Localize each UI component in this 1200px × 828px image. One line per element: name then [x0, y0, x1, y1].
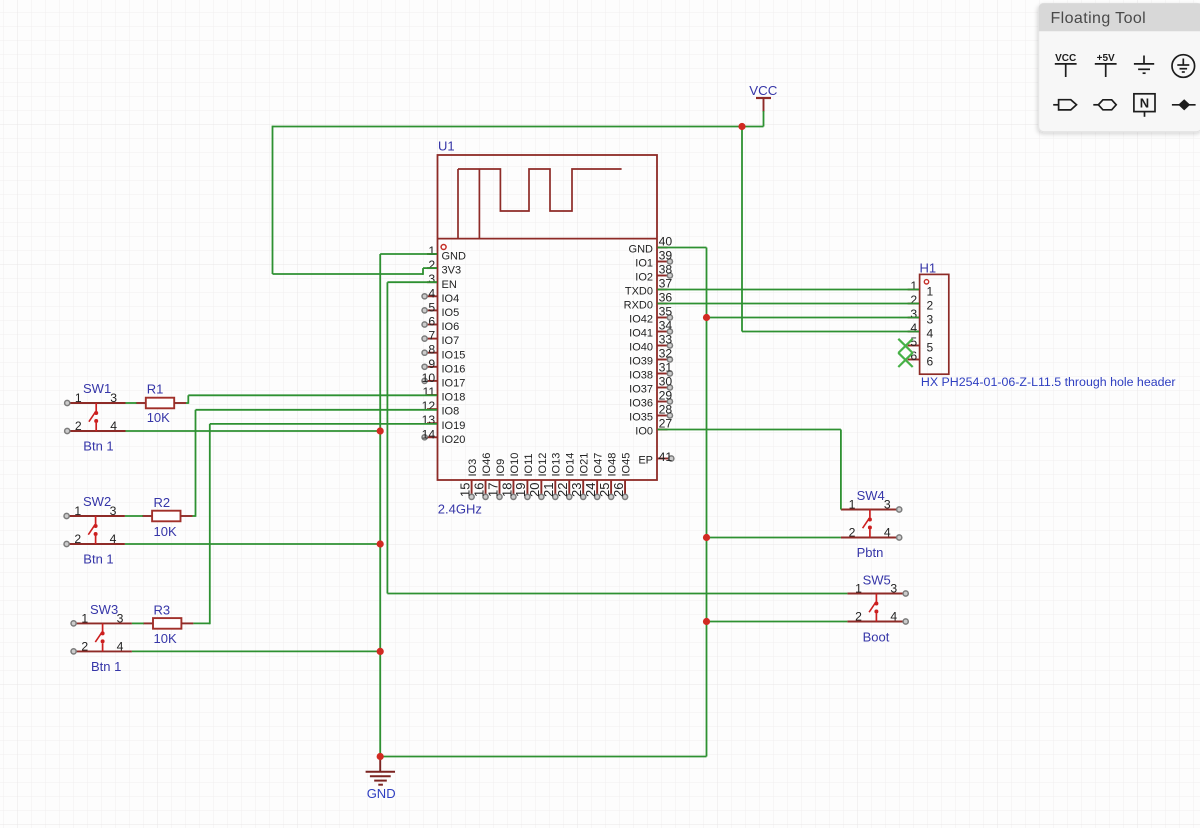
U1 pin 24 (IO47) — [583, 453, 605, 500]
U1 pin 28 (IO35) — [629, 403, 672, 424]
panel icon voltage probe — [1172, 100, 1196, 109]
svg-text:IO18: IO18 — [442, 392, 466, 404]
svg-text:IO42: IO42 — [629, 314, 653, 326]
svg-text:IO14: IO14 — [565, 453, 577, 477]
svg-text:Pbtn: Pbtn — [857, 545, 884, 560]
svg-text:30: 30 — [659, 375, 673, 389]
pushbutton SW5 — [847, 582, 908, 625]
svg-text:23: 23 — [569, 483, 584, 497]
svg-text:13: 13 — [422, 413, 436, 427]
svg-text:IO13: IO13 — [551, 453, 563, 477]
wire EN U1 pin 3 horizontal — [387, 281, 437, 283]
resistor R1 — [136, 398, 186, 409]
svg-text:Boot: Boot — [863, 630, 890, 645]
svg-text:1: 1 — [910, 279, 917, 293]
svg-text:2: 2 — [910, 293, 917, 307]
svg-text:N: N — [1140, 96, 1149, 111]
svg-text:1: 1 — [428, 244, 435, 258]
U1 antenna area divider line — [438, 238, 658, 240]
wire GND U1 pin 40 stub horizontal — [658, 247, 707, 249]
wire VCC into U1 pin 2 — [423, 267, 437, 269]
wire EN vertical drop — [386, 282, 388, 593]
wire R3 riser vertical — [209, 424, 211, 624]
svg-text:Btn 1: Btn 1 — [83, 438, 113, 453]
wire GND to H1 pin 3 — [707, 317, 920, 319]
svg-text:20: 20 — [527, 483, 542, 497]
panel icon VCC power flag — [1055, 64, 1077, 77]
svg-text:U1: U1 — [438, 139, 455, 154]
U1 pin 20 (IO12) — [527, 453, 549, 500]
svg-text:IO5: IO5 — [442, 307, 460, 319]
svg-text:IO2: IO2 — [635, 272, 653, 284]
pushbutton SW3 — [71, 611, 132, 654]
wire SW3 pin 3 to R3 — [132, 622, 144, 624]
panel icon netlabel N — [1134, 94, 1155, 117]
svg-text:10: 10 — [422, 371, 436, 385]
svg-text:IO9: IO9 — [495, 459, 507, 477]
U1 pin 11 (IO18) — [423, 385, 466, 404]
pushbutton SW2 — [64, 504, 125, 547]
junction dot GND at SW3 row — [377, 648, 384, 655]
wire R1 to vertical riser — [186, 402, 188, 404]
VCC power symbol — [756, 98, 771, 112]
svg-text:10K: 10K — [154, 524, 177, 539]
U1 pin 7 (IO7) — [422, 329, 459, 348]
U1 pin 4 (IO4) — [422, 286, 459, 305]
svg-text:5: 5 — [428, 300, 435, 314]
wire GND main left vertical — [379, 254, 381, 757]
U1 pin 1 indicator dot — [441, 245, 446, 250]
svg-text:5: 5 — [927, 341, 934, 355]
ground symbol GND — [366, 757, 395, 785]
svg-text:4: 4 — [428, 286, 435, 300]
wire R3 to U1 pin 13 — [210, 423, 437, 425]
panel icon earth ground — [1172, 55, 1195, 78]
wire VCC top horizontal rail — [273, 126, 764, 128]
svg-text:IO37: IO37 — [629, 384, 653, 396]
svg-text:2: 2 — [74, 532, 81, 546]
H1 pin 6 — [908, 349, 934, 369]
svg-text:IO1: IO1 — [635, 258, 653, 270]
U1 pin 37 (TXD0) — [625, 277, 673, 298]
svg-text:3: 3 — [910, 307, 917, 321]
svg-text:25: 25 — [597, 483, 612, 497]
svg-text:6: 6 — [428, 315, 435, 329]
svg-text:IO11: IO11 — [523, 453, 535, 476]
svg-text:IO6: IO6 — [442, 321, 460, 333]
svg-text:1: 1 — [849, 498, 856, 512]
H1 pin 5 — [908, 335, 934, 355]
svg-text:VCC: VCC — [1055, 53, 1076, 64]
H1 pin 5 no-connect X — [898, 339, 912, 353]
svg-text:1: 1 — [927, 285, 934, 299]
svg-text:4: 4 — [910, 321, 917, 335]
svg-text:+5V: +5V — [1097, 53, 1115, 64]
svg-text:3V3: 3V3 — [442, 265, 462, 277]
svg-text:EP: EP — [638, 455, 653, 467]
wire GND from SW1 pin 4 — [126, 430, 381, 432]
svg-text:3: 3 — [890, 582, 897, 596]
svg-text:1: 1 — [855, 582, 862, 596]
svg-text:SW1: SW1 — [83, 381, 111, 396]
svg-text:RXD0: RXD0 — [624, 300, 653, 312]
U1 pin 8 (IO15) — [422, 343, 465, 362]
svg-text:8: 8 — [428, 343, 435, 357]
U1 pin 31 (IO38) — [629, 361, 672, 382]
svg-text:10K: 10K — [154, 631, 177, 646]
svg-text:IO41: IO41 — [629, 328, 653, 340]
panel icon ground — [1134, 56, 1154, 74]
U1 pin 35 (IO42) — [629, 305, 672, 326]
junction dot GND at SW5 row — [703, 618, 710, 625]
svg-text:TXD0: TXD0 — [625, 286, 653, 298]
svg-text:R1: R1 — [147, 382, 164, 397]
connector H1 body — [920, 274, 949, 374]
wire R2 to vertical riser — [193, 515, 196, 517]
svg-text:SW4: SW4 — [857, 488, 885, 503]
svg-text:10K: 10K — [147, 410, 170, 425]
svg-text:IO10: IO10 — [509, 453, 521, 477]
U1 pin 1 (GND) — [427, 244, 466, 263]
svg-text:IO20: IO20 — [442, 434, 466, 446]
wire R2 to U1 pin 12 — [196, 409, 438, 411]
svg-text:34: 34 — [659, 319, 673, 333]
svg-text:9: 9 — [428, 357, 435, 371]
U1 pin 3 (EN) — [427, 272, 457, 291]
U1 pin 30 (IO37) — [629, 375, 672, 396]
svg-text:VCC: VCC — [749, 83, 777, 98]
svg-text:35: 35 — [659, 305, 673, 319]
U1 pin 40 (GND) — [629, 235, 673, 256]
svg-text:3: 3 — [428, 272, 435, 286]
U1 pin 9 (IO16) — [422, 357, 465, 376]
svg-text:4: 4 — [884, 526, 891, 540]
svg-text:19: 19 — [513, 483, 528, 497]
U1 PCB antenna meander — [458, 169, 622, 239]
svg-text:IO36: IO36 — [629, 398, 653, 410]
wire R3 to vertical riser — [193, 622, 209, 624]
U1 pin 23 (IO21) — [569, 453, 591, 500]
svg-text:IO46: IO46 — [481, 453, 493, 477]
resistor R2 — [142, 511, 192, 522]
svg-text:33: 33 — [659, 333, 673, 347]
svg-text:39: 39 — [659, 249, 673, 263]
svg-text:1: 1 — [81, 611, 88, 625]
U1 pin 2 (3V3) — [427, 258, 461, 277]
svg-text:1: 1 — [75, 391, 82, 405]
svg-text:22: 22 — [555, 483, 570, 497]
wire R1 to U1 pin 11 — [188, 394, 437, 396]
wire GND from SW3 pin 4 — [132, 650, 380, 652]
wire R1 riser vertical — [187, 395, 189, 404]
pushbutton SW1 — [65, 391, 126, 434]
svg-text:IO16: IO16 — [442, 363, 466, 375]
svg-text:GND: GND — [442, 251, 467, 263]
wire GND from SW2 pin 4 — [125, 543, 380, 545]
panel icon +5V power flag — [1095, 64, 1117, 77]
svg-text:IO35: IO35 — [629, 412, 653, 424]
svg-text:18: 18 — [499, 483, 514, 497]
svg-text:1: 1 — [74, 504, 81, 518]
svg-text:28: 28 — [659, 403, 673, 417]
junction dot GND at SW1 row — [377, 427, 384, 434]
svg-text:29: 29 — [659, 389, 673, 403]
wire EN horizontal to SW5 pin 1 — [387, 593, 847, 595]
svg-text:17: 17 — [485, 483, 500, 497]
wire R2 riser vertical — [195, 410, 197, 517]
svg-text:IO7: IO7 — [442, 335, 460, 347]
junction dot GND at ground symbol — [377, 753, 384, 760]
wire VCC horizontal to pin 2 jog — [273, 273, 424, 275]
junction dot VCC rail — [738, 123, 745, 130]
wire VCC jog vertical at x423 — [422, 268, 424, 275]
wire SW2 pin 3 to R2 — [125, 515, 143, 517]
svg-text:R2: R2 — [154, 495, 171, 510]
wire GND to SW5 pin 2 — [707, 621, 848, 623]
svg-text:15: 15 — [457, 483, 472, 497]
junction dot GND at SW4 row — [703, 534, 710, 541]
svg-text:41: 41 — [659, 450, 673, 464]
svg-text:IO4: IO4 — [442, 293, 460, 305]
svg-text:SW3: SW3 — [90, 602, 118, 617]
svg-text:6: 6 — [927, 355, 934, 369]
svg-text:5: 5 — [910, 335, 917, 349]
svg-text:EN: EN — [442, 279, 457, 291]
svg-text:31: 31 — [659, 361, 673, 375]
wire GND right vertical from U1 pin 40 — [706, 248, 708, 757]
svg-text:GND: GND — [629, 244, 654, 256]
svg-text:2: 2 — [81, 639, 88, 653]
panel icon net port — [1093, 100, 1116, 110]
svg-text:4: 4 — [890, 610, 897, 624]
svg-text:3: 3 — [110, 391, 117, 405]
IC module U1 body — [438, 155, 658, 480]
svg-text:4: 4 — [927, 327, 934, 341]
svg-text:21: 21 — [541, 483, 556, 497]
svg-text:3: 3 — [884, 498, 891, 512]
U1 pin 25 (IO48) — [597, 453, 619, 500]
U1 pin 16 (IO46) — [471, 453, 493, 500]
svg-text:IO21: IO21 — [579, 453, 591, 477]
pushbutton SW4 — [841, 498, 902, 541]
svg-text:2: 2 — [428, 258, 435, 272]
U1 pin 6 (IO6) — [422, 315, 459, 334]
svg-text:2: 2 — [849, 526, 856, 540]
wire VCC horizontal to H1 pin 4 — [742, 331, 919, 333]
svg-text:IO15: IO15 — [442, 349, 466, 361]
resistor R3 — [143, 618, 193, 629]
Floating Tool panel — [1039, 3, 1200, 131]
U1 pin 12 (IO8) — [422, 399, 460, 418]
svg-text:2: 2 — [75, 419, 82, 433]
wire SW1 pin 3 to R1 — [126, 402, 137, 404]
svg-text:11: 11 — [423, 385, 436, 399]
svg-text:IO38: IO38 — [629, 370, 653, 382]
wire TXD0 U1 pin 37 to H1 pin 1 — [658, 289, 920, 291]
svg-text:IO40: IO40 — [629, 342, 653, 354]
junction dot GND at H1 pin 3 row — [703, 314, 710, 321]
svg-text:IO19: IO19 — [442, 420, 466, 432]
svg-text:24: 24 — [583, 483, 598, 497]
svg-text:IO12: IO12 — [537, 453, 549, 477]
svg-text:40: 40 — [659, 235, 673, 249]
svg-text:3: 3 — [927, 313, 934, 327]
U1 pin 34 (IO41) — [629, 319, 672, 340]
svg-text:32: 32 — [659, 347, 673, 361]
U1 pin 22 (IO14) — [555, 453, 577, 500]
svg-text:12: 12 — [422, 399, 436, 413]
U1 pin 36 (RXD0) — [624, 291, 673, 312]
U1 pin 21 (IO13) — [541, 453, 563, 500]
U1 pin 38 (IO2) — [635, 263, 672, 284]
wire VCC left vertical drop — [272, 126, 274, 274]
svg-text:HX PH254-01-06-Z-L11.5 through: HX PH254-01-06-Z-L11.5 through hole head… — [921, 375, 1176, 389]
U1 pin 39 (IO1) — [635, 249, 672, 270]
svg-text:IO45: IO45 — [620, 453, 632, 477]
svg-text:14: 14 — [422, 427, 436, 441]
U1 pin 17 (IO9) — [485, 459, 507, 500]
svg-text:Btn 1: Btn 1 — [91, 659, 121, 674]
U1 pin 13 (IO19) — [422, 413, 466, 432]
svg-text:Floating Tool: Floating Tool — [1051, 10, 1147, 27]
U1 pin 33 (IO40) — [629, 333, 672, 354]
H1 pin 4 — [908, 321, 934, 341]
wire IO0 U1 pin 27 horizontal — [658, 429, 841, 431]
svg-text:IO17: IO17 — [442, 378, 466, 390]
svg-text:2: 2 — [927, 299, 934, 313]
junction dot GND at SW2 row — [377, 540, 384, 547]
U1 pin 10 (IO17) — [422, 371, 466, 390]
svg-text:38: 38 — [659, 263, 673, 277]
U1 pin 14 (IO20) — [422, 427, 466, 446]
svg-text:IO8: IO8 — [442, 406, 460, 418]
U1 pin 5 (IO5) — [422, 300, 459, 319]
svg-text:IO3: IO3 — [467, 459, 479, 477]
wire RXD0 U1 pin 36 to H1 pin 2 — [658, 303, 920, 305]
svg-text:IO48: IO48 — [607, 453, 619, 477]
U1 pin 32 (IO39) — [629, 347, 672, 368]
svg-text:2: 2 — [855, 610, 862, 624]
H1 pin 6 no-connect X — [898, 353, 912, 367]
svg-text:IO39: IO39 — [629, 356, 653, 368]
svg-text:Btn 1: Btn 1 — [83, 552, 113, 567]
svg-text:R3: R3 — [154, 602, 171, 617]
H1 pin 1 — [908, 279, 934, 299]
svg-text:IO47: IO47 — [593, 453, 605, 477]
svg-text:4: 4 — [117, 639, 124, 653]
U1 pin 26 (IO45) — [611, 453, 633, 500]
H1 pin 3 — [908, 307, 934, 327]
U1 pin 41 (EP) — [638, 450, 674, 467]
svg-text:2.4GHz: 2.4GHz — [438, 501, 482, 516]
svg-text:4: 4 — [110, 532, 117, 546]
panel icon net flag — [1053, 100, 1076, 110]
svg-text:GND: GND — [367, 786, 396, 801]
wire GND to SW4 pin 2 — [707, 537, 841, 539]
svg-text:16: 16 — [471, 483, 486, 497]
U1 pin 19 (IO11) — [513, 453, 535, 499]
wire GND U1 pin 1 horizontal — [380, 253, 437, 255]
U1 pin 29 (IO36) — [629, 389, 672, 410]
svg-text:26: 26 — [611, 483, 626, 497]
H1 pin 1 indicator dot — [924, 280, 928, 284]
H1 pin 2 — [908, 293, 934, 313]
svg-text:4: 4 — [110, 419, 117, 433]
svg-text:7: 7 — [428, 329, 435, 343]
U1 pin 18 (IO10) — [499, 453, 521, 500]
wire VCC vertical down to H1 pin 4 row — [741, 127, 743, 332]
U1 pin 15 (IO3) — [457, 459, 479, 500]
wire VCC symbol stem to rail — [763, 111, 765, 127]
svg-text:H1: H1 — [920, 260, 937, 275]
svg-text:SW2: SW2 — [83, 494, 111, 509]
svg-text:IO0: IO0 — [635, 426, 653, 438]
svg-text:SW5: SW5 — [863, 572, 891, 587]
U1 pin 27 (IO0) — [635, 417, 672, 438]
wire IO0 vertical down to SW4 — [840, 430, 842, 510]
wire GND bottom horizontal — [380, 756, 706, 758]
